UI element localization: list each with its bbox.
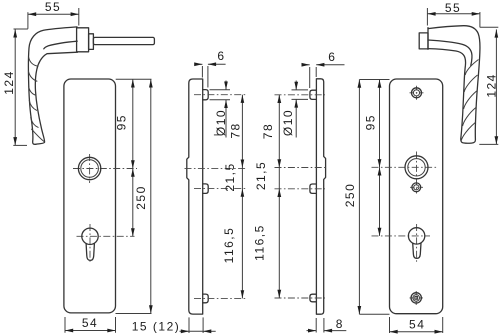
right plate (exterior) front view	[390, 79, 443, 314]
dim diam10 profile 2	[281, 81, 308, 138]
svg-text:54: 54	[82, 316, 98, 330]
grip facet hatch curves	[29, 57, 39, 66]
euro cylinder hole right plate	[372, 224, 431, 264]
dim 54 right	[390, 317, 443, 334]
lug 3 profile 1	[203, 294, 209, 303]
dim 124 left	[2, 29, 28, 145]
dim 54 left	[65, 316, 116, 333]
unlabeled dim handle-to-cylinder left	[131, 169, 135, 237]
dim 55 right	[427, 1, 480, 27]
dim 55 left	[28, 0, 79, 29]
svg-text:6: 6	[328, 50, 336, 64]
handle hub right plate	[372, 152, 438, 194]
dim 8 profile 2	[307, 317, 347, 333]
svg-text:95: 95	[364, 114, 378, 130]
euro cylinder hole left plate	[77, 224, 135, 264]
right handle collar	[419, 33, 428, 49]
lug 2 profile 2	[310, 184, 317, 193]
dim 6 profile 1	[194, 49, 225, 87]
svg-text:21,5: 21,5	[223, 162, 237, 191]
svg-text:250: 250	[134, 185, 148, 210]
svg-text:250: 250	[343, 183, 357, 208]
dim 124 right	[479, 27, 498, 144]
lug 2 profile 1	[203, 184, 209, 194]
lug 1 profile 1	[203, 90, 209, 100]
top screw right plate	[410, 86, 424, 100]
screw below hub right plate	[410, 183, 423, 192]
handle hole left plate	[73, 154, 137, 183]
bottom extension right plate	[359, 313, 389, 315]
svg-text:55: 55	[445, 1, 461, 15]
svg-text:Ø10: Ø10	[214, 109, 228, 136]
bottom screw right plate	[410, 291, 424, 305]
svg-text:124: 124	[2, 70, 16, 95]
chain dims 78 / 21,5 / 116,5 profile 1	[222, 95, 244, 299]
profile view 2 (exterior plate side)	[316, 79, 325, 314]
bottom extension left plate	[116, 313, 152, 315]
dim 15 (12)	[132, 317, 216, 333]
right handle junction edge	[427, 28, 429, 50]
centerlines profile 2	[275, 94, 326, 96]
svg-text:21,5: 21,5	[254, 161, 268, 190]
dim 6 profile 2	[302, 50, 345, 88]
svg-text:6: 6	[217, 49, 225, 63]
svg-text:116,5: 116,5	[222, 227, 236, 264]
svg-text:55: 55	[45, 0, 61, 14]
svg-text:78: 78	[228, 122, 242, 138]
dim 250 left	[134, 79, 153, 313]
right door handle	[419, 26, 480, 144]
svg-text:95: 95	[115, 114, 129, 130]
svg-text:124: 124	[485, 73, 499, 98]
left door handle (lever grip + neck)	[28, 27, 77, 144]
handle collar	[89, 34, 94, 50]
left plate (interior) front view	[64, 79, 116, 313]
svg-text:8: 8	[336, 317, 344, 331]
svg-text:78: 78	[261, 123, 275, 139]
dim 250 right	[343, 80, 361, 315]
svg-text:15 (12): 15 (12)	[132, 320, 181, 334]
spindle	[93, 37, 154, 44]
dim 95 right	[364, 80, 382, 168]
chain dims 78 / 21,5 / 116,5 profile 2	[252, 95, 281, 298]
svg-text:Ø10: Ø10	[281, 109, 295, 136]
right grip facet hatch curves	[465, 60, 478, 76]
handle block	[77, 28, 89, 52]
top extension left plate	[116, 78, 152, 80]
top extension right plate	[359, 79, 389, 81]
lug 1 profile 2	[310, 90, 317, 99]
dim diam10 profile 1	[210, 81, 231, 138]
centerlines profile 1	[194, 94, 246, 96]
unlabeled dim handle-to-cylinder right	[378, 167, 382, 236]
svg-text:116,5: 116,5	[252, 224, 266, 261]
lug 3 profile 2	[310, 294, 317, 302]
profile view 1 (interior plate side)	[187, 79, 203, 314]
dim 95 left	[115, 79, 135, 168]
svg-text:54: 54	[409, 318, 425, 332]
